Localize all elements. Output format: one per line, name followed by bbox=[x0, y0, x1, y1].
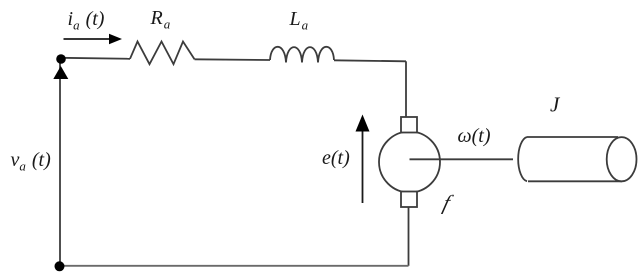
motor brush terminal (top square) bbox=[401, 117, 417, 133]
inertia cylinder J right face bbox=[607, 137, 637, 181]
svg-text:e(t): e(t) bbox=[322, 147, 350, 169]
wire: bottom rail bbox=[60, 265, 409, 267]
current arrow i_a(t) bbox=[64, 34, 123, 45]
motor armature circle bbox=[379, 132, 440, 193]
svg-text:va(t): va(t) bbox=[11, 149, 52, 174]
wire: right vertical drop to motor bbox=[405, 61, 407, 117]
svg-text:Ra: Ra bbox=[150, 7, 171, 32]
motor brush terminal (bottom square) bbox=[401, 192, 417, 208]
node: bottom-left junction dot bbox=[55, 261, 65, 271]
motor shaft to load bbox=[410, 158, 514, 160]
wire: resistor to inductor bbox=[195, 58, 271, 61]
svg-text:ω(t): ω(t) bbox=[458, 125, 491, 147]
source polarity arrowhead (up) on left wire bbox=[53, 66, 68, 79]
wire: motor bottom to bottom rail bbox=[408, 207, 410, 266]
svg-text:J: J bbox=[550, 93, 561, 117]
wire: left vertical branch bbox=[59, 59, 61, 266]
inertia cylinder J body bbox=[518, 137, 622, 181]
wire: inductor to top-right corner bbox=[334, 60, 406, 61]
wire: top segment from node to resistor bbox=[61, 58, 130, 59]
node: top-left junction dot bbox=[56, 54, 66, 64]
svg-text:f: f bbox=[441, 191, 456, 215]
back-emf arrow e(t) bbox=[356, 115, 370, 204]
resistor R_a bbox=[130, 42, 195, 65]
inductor L_a bbox=[270, 47, 334, 63]
svg-text:ia(t): ia(t) bbox=[68, 8, 105, 33]
svg-text:La: La bbox=[289, 8, 309, 33]
